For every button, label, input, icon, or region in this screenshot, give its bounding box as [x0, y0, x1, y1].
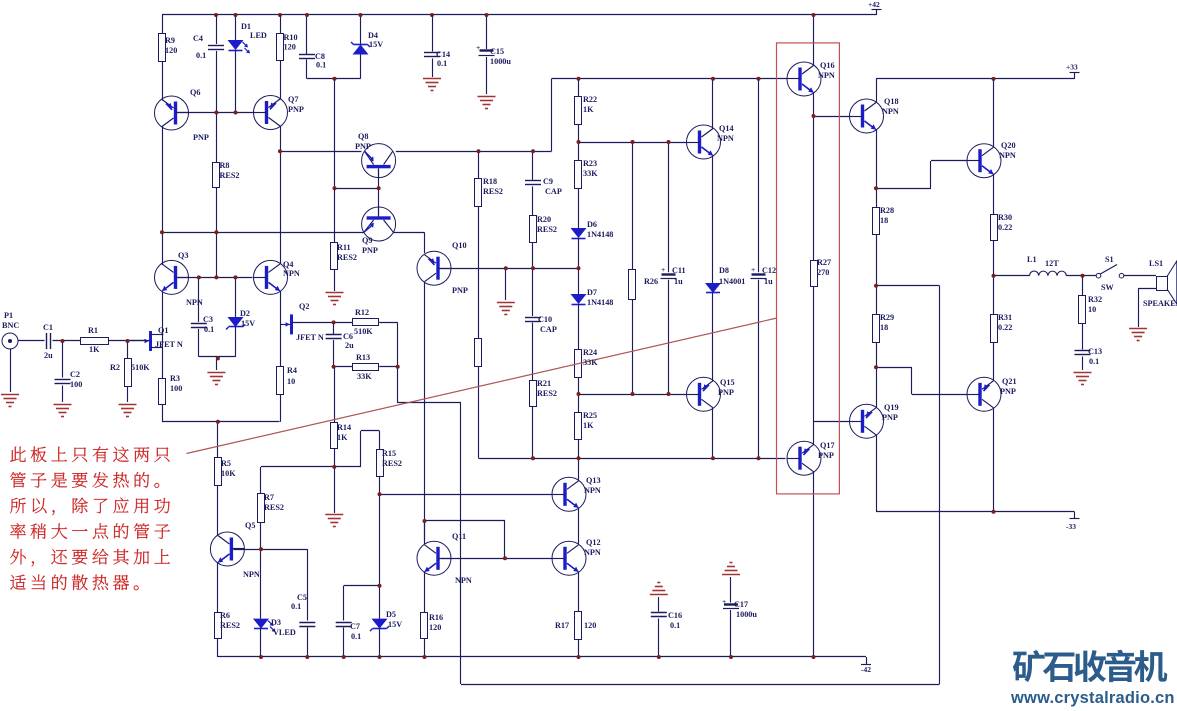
svg-text:PNP: PNP: [882, 413, 898, 422]
svg-text:NPN: NPN: [882, 107, 899, 116]
svg-text:+42: +42: [868, 0, 880, 9]
svg-text:100: 100: [70, 380, 82, 389]
svg-text:R28: R28: [880, 206, 894, 215]
svg-text:18: 18: [880, 323, 888, 332]
svg-text:2u: 2u: [345, 341, 354, 350]
svg-text:1N4001: 1N4001: [719, 277, 745, 286]
svg-text:R4: R4: [287, 366, 297, 375]
svg-text:R26: R26: [644, 277, 658, 286]
svg-text:R30: R30: [998, 213, 1012, 222]
svg-text:0.1: 0.1: [316, 61, 326, 70]
svg-text:C17: C17: [734, 600, 748, 609]
svg-text:BNC: BNC: [2, 321, 19, 330]
svg-text:R20: R20: [537, 215, 551, 224]
svg-text:S1: S1: [1105, 255, 1114, 264]
svg-text:+: +: [751, 265, 755, 274]
svg-text:NPN: NPN: [455, 576, 472, 585]
svg-text:Q20: Q20: [1001, 141, 1016, 150]
svg-text:C6: C6: [343, 332, 353, 341]
svg-text:R7: R7: [264, 493, 274, 502]
svg-text:Q18: Q18: [884, 97, 899, 106]
svg-text:15V: 15V: [369, 40, 383, 49]
svg-text:C15: C15: [490, 47, 504, 56]
svg-text:R27: R27: [817, 258, 831, 267]
svg-text:C1: C1: [43, 323, 53, 332]
svg-text:Q4: Q4: [283, 260, 293, 269]
svg-text:R18: R18: [483, 177, 497, 186]
svg-text:1K: 1K: [583, 421, 594, 430]
svg-text:Q14: Q14: [719, 124, 734, 133]
svg-text:D2: D2: [240, 309, 250, 318]
svg-text:RES2: RES2: [537, 389, 557, 398]
svg-text:C16: C16: [668, 611, 682, 620]
svg-text:R11: R11: [337, 243, 351, 252]
svg-text:RES2: RES2: [220, 171, 240, 180]
svg-text:C14: C14: [436, 50, 450, 59]
svg-text:2u: 2u: [44, 351, 53, 360]
svg-text:R17: R17: [555, 621, 569, 630]
svg-text:Q5: Q5: [245, 521, 255, 530]
svg-text:D8: D8: [719, 266, 729, 275]
svg-text:PNP: PNP: [362, 246, 378, 255]
svg-text:0.22: 0.22: [998, 323, 1012, 332]
svg-text:33K: 33K: [583, 169, 598, 178]
svg-text:100: 100: [170, 384, 182, 393]
svg-text:R5: R5: [221, 459, 231, 468]
svg-text:RES2: RES2: [483, 187, 503, 196]
svg-text:www.crystalradio.cn: www.crystalradio.cn: [1010, 689, 1175, 707]
svg-text:R1: R1: [88, 326, 98, 335]
svg-text:LED: LED: [250, 31, 267, 40]
svg-text:0.1: 0.1: [1089, 357, 1099, 366]
svg-text:C5: C5: [297, 593, 307, 602]
svg-text:NPN: NPN: [584, 548, 601, 557]
svg-text:NPN: NPN: [243, 570, 260, 579]
svg-text:-33: -33: [1066, 522, 1076, 531]
svg-text:15V: 15V: [388, 620, 402, 629]
svg-text:270: 270: [817, 268, 829, 277]
svg-text:120: 120: [429, 623, 441, 632]
svg-text:RES2: RES2: [220, 621, 240, 630]
svg-text:1000u: 1000u: [736, 610, 757, 619]
svg-text:18: 18: [880, 216, 888, 225]
svg-text:VLED: VLED: [273, 628, 296, 637]
svg-text:PNP: PNP: [288, 105, 304, 114]
svg-text:1K: 1K: [89, 345, 100, 354]
svg-text:C3: C3: [203, 315, 213, 324]
svg-text:R22: R22: [583, 95, 597, 104]
svg-text:Q9: Q9: [362, 236, 372, 245]
svg-text:1u: 1u: [674, 277, 683, 286]
svg-text:JFET N: JFET N: [296, 333, 324, 342]
svg-text:Q17: Q17: [820, 441, 835, 450]
svg-text:L1: L1: [1027, 255, 1037, 264]
svg-text:SPEAKER: SPEAKER: [1143, 299, 1177, 308]
svg-text:RES2: RES2: [337, 253, 357, 262]
svg-text:CAP: CAP: [545, 187, 562, 196]
svg-text:Q10: Q10: [452, 241, 467, 250]
svg-text:33K: 33K: [583, 358, 598, 367]
svg-text:10K: 10K: [221, 469, 236, 478]
svg-text:NPN: NPN: [584, 486, 601, 495]
svg-text:R8: R8: [220, 161, 230, 170]
svg-text:0.1: 0.1: [291, 602, 301, 611]
svg-text:P1: P1: [4, 311, 13, 320]
svg-text:C11: C11: [672, 266, 686, 275]
svg-text:0.1: 0.1: [437, 59, 447, 68]
svg-text:12T: 12T: [1045, 259, 1059, 268]
svg-text:R31: R31: [998, 313, 1012, 322]
svg-text:R15: R15: [382, 449, 396, 458]
svg-text:Q1: Q1: [158, 326, 168, 335]
svg-text:D1: D1: [241, 22, 251, 31]
svg-text:CAP: CAP: [540, 325, 557, 334]
svg-text:PNP: PNP: [818, 451, 834, 460]
svg-text:R6: R6: [220, 611, 230, 620]
svg-text:Q2: Q2: [299, 302, 309, 311]
svg-text:Q7: Q7: [288, 95, 298, 104]
svg-text:PNP: PNP: [355, 142, 371, 151]
svg-text:120: 120: [284, 43, 296, 52]
svg-text:R16: R16: [429, 613, 443, 622]
svg-text:1u: 1u: [764, 277, 773, 286]
svg-text:Q3: Q3: [178, 251, 188, 260]
svg-text:C12: C12: [762, 266, 776, 275]
svg-text:120: 120: [584, 621, 596, 630]
svg-text:D5: D5: [386, 610, 396, 619]
svg-text:R25: R25: [583, 411, 597, 420]
svg-text:C4: C4: [193, 34, 203, 43]
svg-text:PNP: PNP: [1000, 387, 1016, 396]
svg-text:10: 10: [287, 377, 295, 386]
svg-text:SW: SW: [1101, 283, 1115, 292]
svg-text:JFET N: JFET N: [155, 340, 183, 349]
svg-text:0.1: 0.1: [670, 621, 680, 630]
svg-text:NPN: NPN: [999, 151, 1016, 160]
svg-text:C2: C2: [70, 370, 80, 379]
svg-text:R13: R13: [356, 353, 370, 362]
svg-text:C9: C9: [543, 177, 553, 186]
svg-text:120: 120: [165, 46, 177, 55]
svg-text:Q8: Q8: [358, 132, 368, 141]
svg-text:R12: R12: [355, 308, 369, 317]
svg-text:33K: 33K: [357, 372, 372, 381]
svg-text:C10: C10: [538, 315, 552, 324]
svg-text:+: +: [476, 43, 480, 52]
svg-text:R10: R10: [284, 33, 298, 42]
svg-text:1K: 1K: [337, 433, 348, 442]
svg-text:RES2: RES2: [537, 225, 557, 234]
svg-text:C7: C7: [350, 622, 360, 631]
svg-text:Q21: Q21: [1002, 377, 1017, 386]
svg-text:RES2: RES2: [264, 503, 284, 512]
svg-text:Q6: Q6: [190, 88, 200, 97]
svg-text:R32: R32: [1088, 295, 1102, 304]
svg-text:RES2: RES2: [382, 459, 402, 468]
svg-text:0.1: 0.1: [351, 632, 361, 641]
svg-text:R21: R21: [537, 379, 551, 388]
svg-text:D3: D3: [271, 618, 281, 627]
svg-text:PNP: PNP: [452, 286, 468, 295]
svg-text:Q11: Q11: [452, 532, 466, 541]
svg-text:PNP: PNP: [718, 388, 734, 397]
svg-text:Q15: Q15: [720, 378, 735, 387]
svg-text:1000u: 1000u: [490, 57, 511, 66]
svg-text:Q12: Q12: [586, 538, 601, 547]
svg-text:15V: 15V: [241, 319, 255, 328]
svg-text:510K: 510K: [131, 363, 150, 372]
svg-text:1K: 1K: [583, 105, 594, 114]
svg-text:+: +: [661, 265, 665, 274]
svg-text:PNP: PNP: [193, 133, 209, 142]
svg-text:0.22: 0.22: [998, 223, 1012, 232]
svg-text:D6: D6: [587, 220, 597, 229]
svg-text:D7: D7: [587, 288, 597, 297]
svg-text:R3: R3: [170, 374, 180, 383]
svg-text:10: 10: [1088, 305, 1096, 314]
svg-text:C13: C13: [1088, 347, 1102, 356]
svg-text:1N4148: 1N4148: [587, 298, 613, 307]
svg-text:510K: 510K: [354, 327, 373, 336]
svg-text:LS1: LS1: [1149, 259, 1163, 268]
svg-text:NPN: NPN: [283, 269, 300, 278]
svg-text:NPN: NPN: [717, 134, 734, 143]
svg-text:0.1: 0.1: [196, 51, 206, 60]
svg-text:Q13: Q13: [586, 476, 601, 485]
svg-text:1N4148: 1N4148: [587, 230, 613, 239]
svg-text:R29: R29: [880, 313, 894, 322]
svg-text:Q16: Q16: [820, 61, 835, 70]
svg-text:D4: D4: [368, 31, 378, 40]
svg-text:R2: R2: [110, 363, 120, 372]
svg-text:+33: +33: [1066, 63, 1078, 72]
svg-text:NPN: NPN: [818, 71, 835, 80]
svg-text:+: +: [722, 597, 726, 606]
svg-text:R24: R24: [583, 348, 597, 357]
svg-text:Q19: Q19: [884, 403, 899, 412]
svg-text:-42: -42: [861, 665, 871, 674]
svg-text:R23: R23: [583, 159, 597, 168]
svg-text:0.1: 0.1: [204, 325, 214, 334]
svg-text:R9: R9: [165, 36, 175, 45]
svg-text:NPN: NPN: [186, 298, 203, 307]
svg-text:R14: R14: [337, 423, 351, 432]
